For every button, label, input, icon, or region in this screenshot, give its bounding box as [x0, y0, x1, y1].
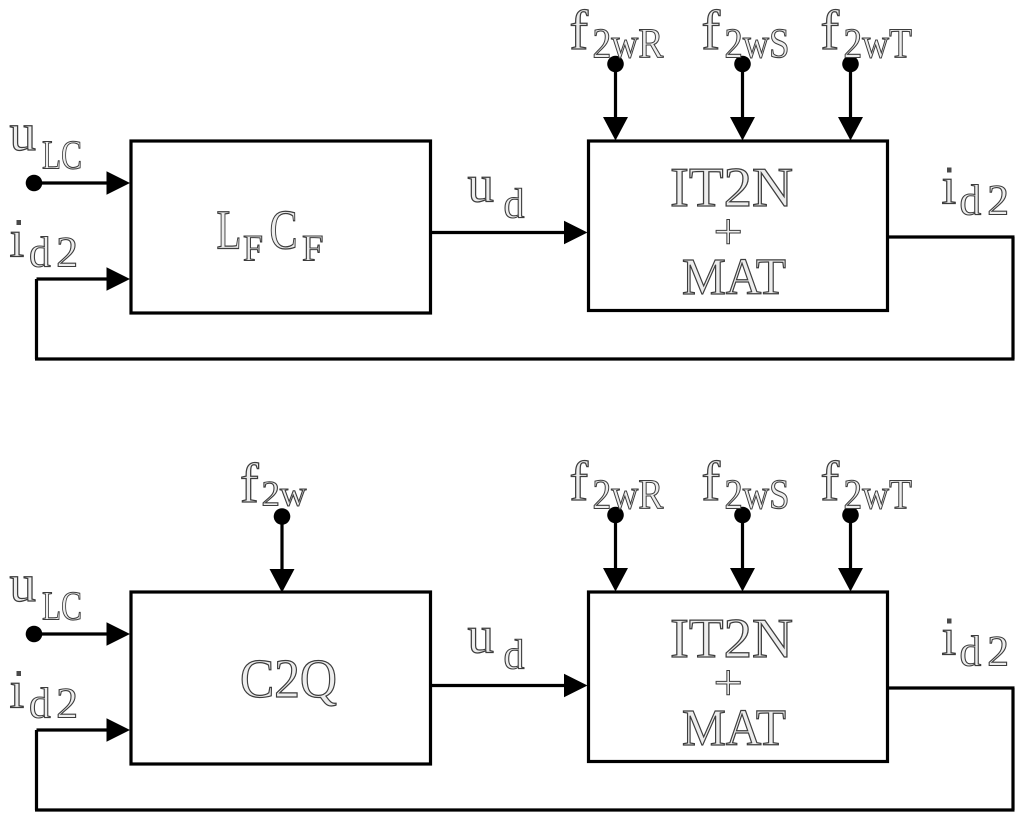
wire f2wT down — [849, 515, 852, 573]
label u_d — [468, 607, 525, 679]
svg-text:2wR: 2wR — [593, 473, 664, 519]
wire i_d2 feedback bottom — [35, 357, 1015, 360]
arrowhead f2wT — [838, 568, 863, 592]
arrowhead u_LC — [107, 622, 131, 646]
wire u_d between blocks — [431, 231, 571, 234]
node f2wR (input terminal dot) — [607, 507, 624, 524]
block C2Q (bottom diagram) — [131, 592, 431, 764]
label f2w — [240, 453, 307, 515]
arrowhead i_d2 input — [107, 267, 131, 291]
arrowhead f2w — [270, 569, 295, 593]
svg-text:2wR: 2wR — [593, 22, 664, 68]
svg-text:2wS: 2wS — [725, 22, 790, 68]
svg-text:d: d — [504, 182, 525, 228]
svg-text:ı: ı — [10, 662, 25, 720]
wire f2wR down — [614, 515, 617, 573]
label u_LC — [10, 555, 83, 629]
svg-text:f: f — [821, 451, 840, 513]
svg-text:d2: d2 — [960, 628, 1016, 676]
label f2wS — [702, 0, 790, 68]
svg-text:LC: LC — [42, 583, 82, 629]
wire u_LC to block — [34, 632, 112, 635]
wire u_d between blocks — [431, 684, 571, 687]
svg-text:d2: d2 — [29, 680, 84, 728]
svg-text:MAT: MAT — [682, 249, 786, 306]
svg-text:MAT: MAT — [682, 700, 786, 757]
label u_LC — [10, 104, 83, 178]
svg-text:f: f — [821, 0, 840, 62]
label f2wS — [702, 451, 790, 519]
node f2wT (input terminal dot) — [842, 56, 859, 73]
arrowhead f2wT — [838, 117, 863, 141]
svg-text:f: f — [570, 451, 589, 513]
svg-text:u: u — [468, 156, 495, 214]
wire f2w down — [280, 517, 283, 574]
label C2Q — [240, 648, 337, 709]
wire i_d2 feedback vertical left — [35, 279, 38, 359]
label IT2N + MAT — [670, 608, 793, 757]
svg-text:2wT: 2wT — [844, 473, 913, 519]
svg-text:C: C — [270, 200, 298, 262]
svg-text:2w: 2w — [262, 474, 307, 514]
svg-text:LC: LC — [42, 132, 82, 178]
wire f2wS down — [741, 64, 744, 122]
svg-text:u: u — [10, 104, 37, 162]
wire i_d2 feedback bottom — [35, 808, 1015, 811]
wire i_d2 feedback vertical left — [35, 730, 38, 810]
svg-text:C2Q: C2Q — [240, 648, 337, 709]
arrowhead i_d2 input — [107, 718, 131, 742]
svg-text:ı: ı — [10, 211, 25, 269]
svg-text:f: f — [702, 451, 721, 513]
block LFCF (top diagram) — [131, 141, 431, 313]
label i_d2 (left input) — [10, 211, 84, 277]
wire i_d2 feedback horizontal into block — [37, 728, 113, 731]
arrowhead u_d — [564, 221, 588, 245]
svg-text:F: F — [302, 229, 324, 270]
wire i_d2 feedback vertical right — [1011, 688, 1014, 810]
svg-text:d: d — [504, 633, 525, 679]
svg-text:ı: ı — [942, 158, 957, 216]
svg-text:d2: d2 — [29, 229, 84, 277]
label IT2N + MAT — [670, 157, 793, 306]
node f2wS (input terminal dot) — [734, 507, 751, 524]
label f2wT — [821, 0, 913, 68]
svg-text:2wT: 2wT — [844, 22, 913, 68]
node u_LC (input terminal dot) — [26, 175, 43, 192]
wire i_d2 feedback vertical right — [1011, 237, 1014, 359]
arrowhead f2wR — [603, 568, 628, 592]
arrowhead f2wS — [730, 117, 755, 141]
label LFCF — [217, 200, 324, 270]
wire u_LC to block — [34, 181, 112, 184]
label i_d2 (right output) — [942, 158, 1016, 225]
block IT2N+MAT (top diagram) — [589, 141, 888, 311]
svg-text:u: u — [10, 555, 37, 613]
node f2wS (input terminal dot) — [734, 56, 751, 73]
wire f2wS down — [741, 515, 744, 573]
svg-text:L: L — [217, 200, 242, 262]
svg-text:d2: d2 — [960, 177, 1016, 225]
svg-text:2wS: 2wS — [725, 473, 790, 519]
wire i_d2 feedback horizontal into block — [37, 277, 113, 280]
wire i_d2 output from block — [887, 235, 1015, 238]
svg-text:ı: ı — [942, 609, 957, 667]
svg-text:f: f — [240, 453, 259, 515]
svg-text:F: F — [243, 229, 263, 270]
label f2wT — [821, 451, 913, 519]
label i_d2 (left input) — [10, 662, 84, 728]
label f2wR — [570, 0, 664, 68]
block IT2N+MAT (bottom diagram) — [589, 592, 888, 762]
wire f2wT down — [849, 64, 852, 122]
arrowhead u_d — [564, 674, 588, 698]
node f2wT (input terminal dot) — [842, 507, 859, 524]
label f2wR — [570, 451, 664, 519]
svg-text:f: f — [702, 0, 721, 62]
arrowhead u_LC — [107, 171, 131, 195]
label i_d2 (right output) — [942, 609, 1016, 676]
svg-text:u: u — [468, 607, 495, 665]
wire i_d2 output from block — [887, 686, 1015, 689]
label u_d — [468, 156, 525, 228]
node f2wR (input terminal dot) — [607, 56, 624, 73]
wire f2wR down — [614, 64, 617, 122]
svg-text:f: f — [570, 0, 589, 62]
arrowhead f2wS — [730, 568, 755, 592]
node f2w (input terminal dot, C2Q block) — [274, 508, 291, 525]
arrowhead f2wR — [603, 117, 628, 141]
node u_LC (input terminal dot) — [26, 626, 43, 643]
